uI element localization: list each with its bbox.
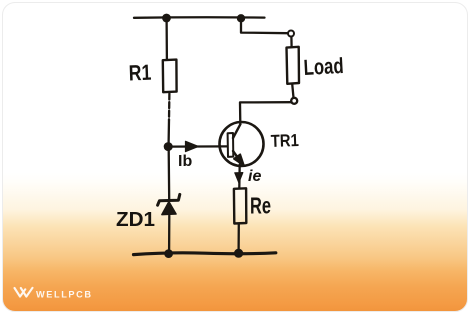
- terminal: load bottom: [291, 98, 297, 104]
- logo WELLPCB: [15, 288, 93, 300]
- transistor TR1: [220, 122, 264, 166]
- resistor R1: [163, 60, 177, 93]
- wire: base wire with Ib current arrow: [171, 141, 227, 151]
- wire: top supply rail: [134, 16, 265, 19]
- wire: load branch drop to load top: [241, 19, 288, 33]
- svg-text:WELLPCB: WELLPCB: [36, 290, 93, 300]
- wire: base node to ZD1: [168, 150, 171, 200]
- arrow: ie current direction: [235, 173, 243, 183]
- svg-text:Load: Load: [303, 53, 344, 80]
- resistor Re: [234, 188, 246, 223]
- wire: collector to load: [240, 102, 291, 123]
- wire: Re to ground rail: [237, 224, 239, 252]
- junction: ZD1 ground node: [164, 249, 173, 258]
- svg-text:ZD1: ZD1: [116, 209, 155, 231]
- svg-text:Re: Re: [250, 193, 271, 219]
- wire: R1 to base node: [168, 94, 171, 121]
- svg-text:TR1: TR1: [270, 130, 299, 151]
- svg-text:Ib: Ib: [178, 153, 192, 170]
- junction: base node: [164, 142, 173, 151]
- wire: ZD1 to ground rail: [168, 216, 170, 253]
- wire: emitter lead: [238, 165, 241, 189]
- wire: R1 top lead: [165, 19, 168, 60]
- junction: load branch node: [237, 14, 245, 22]
- junction: Re ground node: [234, 249, 243, 258]
- svg-text:ie: ie: [248, 168, 261, 185]
- resistor Load: [287, 47, 300, 84]
- svg-text:R1: R1: [128, 60, 151, 86]
- zener diode ZD1: [158, 194, 180, 214]
- wire: load top lead: [290, 37, 293, 47]
- junction: R1 top node: [162, 14, 171, 23]
- wire: bottom ground rail: [134, 253, 276, 255]
- wire: load bottom lead: [292, 84, 293, 98]
- terminal: load top: [288, 31, 294, 37]
